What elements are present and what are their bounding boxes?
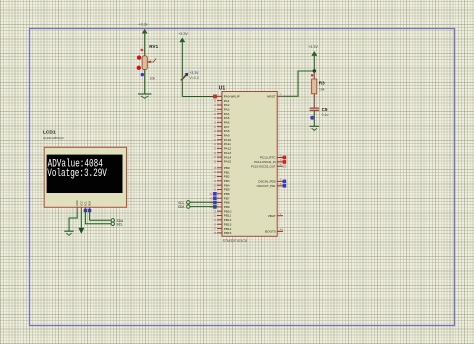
svg-text:PB3: PB3 xyxy=(224,179,230,183)
power +3.3V (top of RV1) xyxy=(138,22,147,56)
svg-text:11: 11 xyxy=(214,99,217,103)
pin LCD SCL xyxy=(83,201,87,211)
pin PB15 (28) xyxy=(213,231,231,235)
pin PB12 (25) xyxy=(213,218,231,222)
wire power to PA0 pin xyxy=(182,96,217,98)
svg-text:V=3.3: V=3.3 xyxy=(189,76,198,80)
pin PA12 (33) xyxy=(213,147,231,151)
voltage dot (red) RV1 top terminal xyxy=(137,55,141,59)
svg-text:SDA: SDA xyxy=(178,205,185,209)
svg-text:PB13: PB13 xyxy=(224,222,232,226)
svg-text:37: 37 xyxy=(213,155,216,159)
svg-text:42: 42 xyxy=(210,192,213,196)
node SDA (terminal to PB9) xyxy=(178,205,190,209)
svg-text:14: 14 xyxy=(213,112,216,116)
svg-text:27: 27 xyxy=(213,227,216,231)
junction node (R3 top / NRST / +3.3V) xyxy=(313,69,316,72)
svg-text:R3: R3 xyxy=(319,80,325,85)
svg-text:OSCIN_PD0: OSCIN_PD0 xyxy=(258,180,276,184)
pin PA9 (30) xyxy=(213,134,229,138)
ground (LCD) xyxy=(64,231,73,235)
voltage probe +3.3V on PA0 net xyxy=(181,73,188,80)
wire R3 to C5 xyxy=(313,94,315,108)
svg-text:10k: 10k xyxy=(150,77,156,81)
svg-text:RV1: RV1 xyxy=(149,44,158,49)
svg-text:PB11: PB11 xyxy=(224,214,232,218)
voltage dot (blue) RV1 ground side xyxy=(141,73,144,76)
pin LCD VCC xyxy=(79,201,83,211)
svg-text:32: 32 xyxy=(213,142,216,146)
pin PA3 (13) xyxy=(213,107,229,111)
node SDA terminal (LCD side) xyxy=(111,219,124,223)
svg-text:PC13_RTC: PC13_RTC xyxy=(260,156,277,160)
pin PC14-OSC32_IN (3) xyxy=(254,158,286,164)
svg-text:33: 33 xyxy=(213,147,216,151)
pin PA7 (17) xyxy=(213,125,229,129)
wire SCL to PB8 xyxy=(190,201,217,203)
pin PB9 (46) xyxy=(210,205,230,209)
resistor R3 xyxy=(312,71,317,94)
sheet border frame xyxy=(30,29,455,326)
pin PA5 (15) xyxy=(213,116,229,120)
pin PB13 (26) xyxy=(213,222,231,226)
svg-text:17: 17 xyxy=(213,125,216,129)
svg-text:PC15-OSC32_OUT: PC15-OSC32_OUT xyxy=(251,164,276,168)
svg-text:SCL: SCL xyxy=(83,201,87,207)
svg-text:20: 20 xyxy=(213,175,216,179)
wire RV1 to ground xyxy=(144,70,146,94)
power +3.3V (top of R3) xyxy=(308,45,318,71)
svg-text:18: 18 xyxy=(213,166,216,170)
pin BOOT0 (44) xyxy=(265,228,283,234)
pin PB0 (18) xyxy=(213,166,230,170)
svg-text:PA3: PA3 xyxy=(224,108,230,112)
node SCL (terminal to PB8) xyxy=(178,201,190,205)
logic-state square LCD SDA xyxy=(88,209,91,212)
wire SDA to PB9 xyxy=(190,206,217,208)
svg-text:PA15: PA15 xyxy=(224,160,232,164)
svg-text:16: 16 xyxy=(213,120,216,124)
pin PA4 (14) xyxy=(213,112,229,116)
svg-text:0.1u: 0.1u xyxy=(322,113,329,117)
svg-text:BOOT0: BOOT0 xyxy=(265,230,276,234)
microcontroller U1 body xyxy=(222,92,277,237)
pin VBAT (1) xyxy=(268,212,283,218)
wire LCD GND to ground xyxy=(69,211,77,231)
svg-text:21: 21 xyxy=(213,209,216,213)
svg-text:LCD1: LCD1 xyxy=(43,130,56,136)
capacitor C5 xyxy=(310,108,320,111)
svg-text:43: 43 xyxy=(210,196,213,200)
pin PA11 (32) xyxy=(213,142,231,146)
svg-text:34: 34 xyxy=(213,151,216,155)
svg-text:38: 38 xyxy=(213,160,216,164)
pin PB10 (21) xyxy=(213,209,231,213)
svg-text:15: 15 xyxy=(213,116,216,120)
pin OSCOUT_PD1 (6) xyxy=(257,182,287,188)
svg-text:STM32F103C8: STM32F103C8 xyxy=(223,239,247,243)
svg-text:40: 40 xyxy=(213,183,216,187)
pin PA15 (38) xyxy=(213,160,231,164)
pin PC13_RTC (2) xyxy=(260,154,286,160)
svg-text:41: 41 xyxy=(213,188,216,192)
wire LCD SCL to terminal xyxy=(85,211,111,224)
pin LCD SDA xyxy=(88,201,92,211)
voltage dot (small red) RV1 wiper xyxy=(141,49,144,52)
pin PB14 (27) xyxy=(213,227,231,231)
svg-text:13: 13 xyxy=(213,107,216,111)
svg-text:10k: 10k xyxy=(319,88,325,92)
pin PA6 (16) xyxy=(213,120,229,124)
svg-text:SDA: SDA xyxy=(88,201,92,207)
display LCD1 body xyxy=(44,147,126,207)
pin PB1 (19) xyxy=(213,170,230,174)
wire LCD VCC to power xyxy=(80,211,82,228)
pin PB5 (41) xyxy=(213,188,230,192)
svg-text:44: 44 xyxy=(280,228,284,232)
pin LCD GND xyxy=(75,200,79,210)
svg-text:30: 30 xyxy=(213,134,216,138)
pin PA2 (12) xyxy=(213,103,229,107)
logic-state square PA0 (high) xyxy=(213,95,217,99)
pin PA14 (37) xyxy=(213,155,231,159)
svg-text:+3.3V: +3.3V xyxy=(308,45,318,49)
potentiometer RV1 xyxy=(142,56,156,70)
svg-text:29: 29 xyxy=(213,129,216,133)
pin NRST (7) xyxy=(267,93,283,99)
svg-text:VBAT: VBAT xyxy=(268,214,276,218)
svg-text:OSCOUT_PD1: OSCOUT_PD1 xyxy=(257,184,276,188)
wire LCD SDA to terminal xyxy=(90,211,112,221)
svg-text:C5: C5 xyxy=(322,107,328,112)
ground (below RV1) xyxy=(138,94,151,98)
svg-text:31: 31 xyxy=(213,138,216,142)
LCD1 screen xyxy=(47,155,123,193)
svg-text:PB1: PB1 xyxy=(224,170,230,174)
svg-text:+3.3V: +3.3V xyxy=(189,71,199,75)
voltage dot (blue) at C5 bottom xyxy=(310,116,314,120)
svg-text:PA6: PA6 xyxy=(224,121,230,125)
pin PC15-OSC32_OUT (4) xyxy=(251,162,286,168)
svg-text:39: 39 xyxy=(213,179,216,183)
svg-text:22: 22 xyxy=(213,214,216,218)
pin OSCIN_PD0 (5) xyxy=(258,178,286,184)
wire NRST to R3 top node xyxy=(283,71,314,96)
svg-text:12: 12 xyxy=(213,103,216,107)
pin PB2 (20) xyxy=(213,175,230,179)
pin PB6 (42) xyxy=(210,192,230,196)
svg-text:Volatge:3.29V: Volatge:3.29V xyxy=(47,168,107,180)
pin PA0-WKUP (10) xyxy=(213,94,239,98)
voltage dot (small red) at R3 top xyxy=(311,74,314,77)
svg-text:PB6: PB6 xyxy=(224,192,230,196)
pin PA10 (31) xyxy=(213,138,231,142)
svg-text:+3.3V: +3.3V xyxy=(178,32,188,36)
power symbol (down arrow, LCD VCC) xyxy=(79,228,84,233)
voltage dot (red) RV1 bottom terminal xyxy=(137,66,141,70)
pin PB11 (22) xyxy=(213,214,231,218)
svg-text:PA1: PA1 xyxy=(224,99,230,103)
pin PB7 (43) xyxy=(210,196,230,200)
svg-text:SDA: SDA xyxy=(117,219,124,223)
ground (below C5) xyxy=(310,126,319,130)
svg-text:PA8: PA8 xyxy=(224,129,230,133)
node SCL terminal (LCD side) xyxy=(111,222,123,226)
svg-text:25: 25 xyxy=(213,218,216,222)
svg-text:PA11: PA11 xyxy=(224,142,231,146)
svg-text:SCL: SCL xyxy=(117,222,123,226)
svg-text:PB8: PB8 xyxy=(224,201,230,205)
svg-text:28: 28 xyxy=(213,231,216,235)
pin PA1 (11) xyxy=(214,99,230,103)
svg-text:NRST: NRST xyxy=(267,95,276,99)
svg-text:+3.3v: +3.3v xyxy=(138,22,147,26)
pin PB4 (40) xyxy=(213,183,230,187)
pin PA13 (34) xyxy=(213,151,231,155)
pin PA8 (29) xyxy=(213,129,229,133)
wire C5 to ground xyxy=(313,111,315,126)
svg-text:PA13: PA13 xyxy=(224,151,232,155)
svg-text:GND: GND xyxy=(75,200,79,206)
svg-text:QLED12864QC: QLED12864QC xyxy=(43,136,65,140)
svg-text:19: 19 xyxy=(213,170,216,174)
svg-text:U1: U1 xyxy=(219,86,226,92)
svg-text:VCC: VCC xyxy=(79,201,83,207)
pin PB8 (45) xyxy=(210,201,230,205)
power +3.3V (feeds PA0) xyxy=(178,32,188,97)
logic-state square LCD SCL xyxy=(84,209,87,212)
svg-text:PB15: PB15 xyxy=(224,231,232,235)
pin PB3 (39) xyxy=(213,179,230,183)
svg-text:26: 26 xyxy=(213,222,216,226)
